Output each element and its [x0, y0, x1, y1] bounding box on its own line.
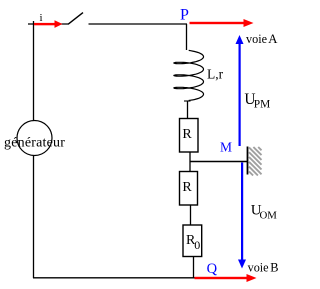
svg-text:OM: OM [260, 209, 278, 221]
wire bottom [33, 277, 195, 279]
svg-text:PM: PM [254, 98, 270, 110]
M wall line [247, 147, 249, 175]
resistor R0 [183, 225, 202, 257]
resistor R1 [180, 119, 199, 153]
svg-text:A: A [268, 32, 278, 46]
generator circle [17, 121, 52, 156]
svg-text:générateur: générateur [4, 136, 65, 151]
wire P down to coil [186, 24, 188, 50]
svg-text:M: M [220, 140, 232, 155]
wire R0 to bottom [193, 256, 195, 278]
svg-text:Q: Q [207, 261, 218, 277]
inductor L,r coil [174, 50, 204, 100]
svg-text:voie: voie [248, 261, 269, 275]
resistor R2 [180, 172, 198, 206]
wire top right [89, 23, 188, 25]
wire left vertical upper [33, 21, 35, 121]
svg-text:voie: voie [246, 32, 267, 46]
svg-text:i: i [40, 12, 43, 24]
wire R1 to R2 [189, 152, 191, 172]
wire left vertical lower [33, 156, 35, 279]
svg-text:B: B [270, 261, 278, 275]
svg-text:0: 0 [194, 238, 200, 252]
svg-text:R: R [182, 180, 192, 195]
switch K [68, 13, 83, 25]
svg-text:R: R [182, 127, 192, 142]
wire junction to M [190, 161, 248, 163]
wire R2 to R0 [190, 205, 192, 225]
current arrow i (red) [34, 20, 63, 28]
wire coil to R1 [187, 101, 189, 119]
voltage arrow U_PM (blue) [236, 35, 244, 146]
voie B arrow (red) [195, 274, 257, 282]
coil bottom tick [184, 100, 191, 102]
voltage arrow U_OM (blue) [238, 163, 246, 269]
wire top-left stub [28, 23, 68, 25]
voie A arrow (red) [190, 19, 254, 27]
svg-text:P: P [180, 7, 189, 24]
svg-text:L,r: L,r [207, 66, 224, 81]
M hatching [249, 147, 262, 176]
